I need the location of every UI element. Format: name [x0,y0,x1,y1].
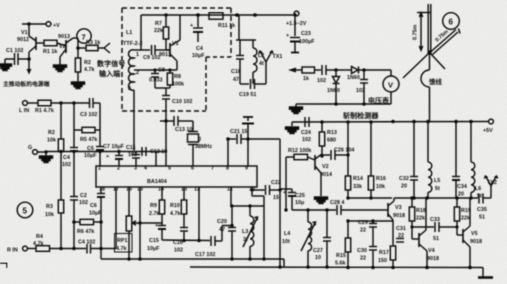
feeder line with loop [421,53,430,122]
node at riser to L2 tank [235,13,239,17]
label circle 7 [77,29,91,43]
label circle 5 [17,202,33,218]
wire L-in column to pin1 [99,103,101,146]
wire pin11 riser and row [230,187,264,208]
resistor R1 1k [36,40,57,55]
wire V3 base bias row [346,196,392,199]
detector probe arrow [288,68,302,73]
ground bus 2 [190,265,483,269]
capacitor C23 100uF [286,13,315,52]
capacitor C10 102 [162,96,192,122]
wire detector bottom [296,102,391,106]
ground under C1 [0,59,12,71]
wire tank bottom [240,83,249,85]
resistor R4 4.7k [33,234,86,251]
capacitor C4 10uF [190,13,205,59]
capacitor C19 51 [239,79,266,98]
capacitor C21 15 [226,129,250,144]
label circle 6 [443,13,460,30]
antenna radial left [403,54,429,79]
wire C8/R8 join [155,88,170,95]
node C1/V1 base junction [27,57,31,61]
wire collector row [394,196,471,200]
resistor R9 2.7k [149,187,165,225]
transistor V5 9018 [457,198,482,268]
antenna vertical element [428,4,431,51]
capacitor C3 102 [80,98,100,118]
voltmeter V [364,70,399,104]
potentiometer RP1 4.7k [115,187,141,259]
capacitor C9 102 [143,45,170,61]
transistor V3 9018 [385,198,405,220]
node feed junction [253,13,257,17]
resistor R7 22k [154,13,170,50]
resistor R12 100k [284,148,315,212]
capacitor C26 104 [322,148,354,161]
capacitor C30 22 [357,247,377,268]
capacitor C29 22 [358,220,377,246]
resistor R11 1k [209,13,235,29]
capacitor C25 10u coupling [280,189,305,210]
ground bus 1 [101,257,284,267]
capacitor C4 102 (audio) [62,148,78,169]
crystal 38MHz [188,121,213,166]
transistor V2 9014 [315,154,332,196]
resistor R1 4.7k (audio) [35,100,89,114]
resistor R3 1k [78,40,100,51]
node pin5 riser [164,119,168,123]
wire pin4 riser [155,152,157,167]
wire arrow to power label [27,59,32,75]
capacitor C20 47 [217,206,236,259]
resistor R17 150 [378,221,396,268]
capacitor C16 102 [173,228,188,254]
wire pin1 riser [99,152,101,167]
capacitor C7 10uF on pin2 [103,144,125,166]
wire pin8 riser [227,139,229,166]
resistor R2 10k (audio) [47,103,64,152]
capacitor C12 10 in series [142,147,167,156]
capacitor C28 4 [330,200,385,215]
wire pin17 riser [99,187,116,250]
node B [72,101,76,105]
capacitor 102 detector filter [356,68,368,104]
wire top bus in box [141,14,294,16]
capacitor C32 20 [399,122,418,199]
transistor V4 9018 [412,198,439,268]
capacitor C5 10uF [84,146,104,159]
resistor R2 4.7k [75,48,94,82]
IC U1 BA1404 [96,166,257,193]
capacitor C4 102 (R ch) [78,240,116,254]
wire pin10 route [252,187,264,259]
diode D2 1N60 series [336,67,364,82]
node antenna apex [427,50,431,54]
wire C21 to C22 column [248,138,280,140]
inductor L1 TTF-2-2 [123,30,142,92]
resistor R15 5.6k [335,221,351,267]
transistor V1 9013 (osc) [159,15,180,70]
capacitor C33 51 [410,217,458,242]
wire G bus [46,150,166,153]
transistor V2 9013 [57,34,78,65]
wire L1 tap2 [134,69,147,71]
capacitor C22 15 [250,180,280,201]
resistor R18 22k [409,198,426,239]
label digital signal input (Chinese) [97,59,125,78]
resistor 1k detector [302,67,321,82]
capacitor C34 20 [452,122,467,199]
antenna radial right short [431,54,446,70]
inductor L6 5t [471,122,482,200]
capacitor C31 22 [396,226,406,242]
wire C21/C22 column down [278,139,281,267]
wire emitter row [147,68,177,71]
ground symbol right end [478,268,493,278]
resistor R10 4.7k [170,187,187,227]
antenna arm upper right double [431,29,461,55]
terminal R IN [7,246,36,253]
wire pin15 riser [138,187,142,259]
inductor L4 10t variable [282,210,316,267]
wire V3 emitter row [346,219,393,222]
wire L1 bottom down [133,90,135,151]
capacitor C2 102 [70,152,88,250]
capacitor 102 detector in [317,65,336,84]
terminal L IN [19,101,38,114]
capacitor C27 10 [313,210,331,267]
wire wiper row to R9 [140,222,162,224]
ground detector [290,104,303,114]
wire pin12 riser [198,187,200,241]
capacitor C35 51 to TX2 [469,194,491,221]
capacitor C18 47 [231,40,244,84]
node A [59,101,63,105]
inductor L3 variable [242,206,258,259]
resistor R16 10k [368,122,386,198]
ground under R2 [72,82,85,89]
digital input terminal fork [98,43,110,53]
resistor R19 22k [454,198,471,235]
node R-in junctions [59,247,76,251]
resistor R6 47k [72,219,103,235]
power rail +5V [292,120,489,124]
wire C1 row [5,58,14,60]
antenna TX2 [484,176,497,198]
capacitor C11 102 on pin3 [126,145,140,166]
dimension 0.75m vertical [413,13,432,51]
antenna TX1 [259,51,283,84]
inductor L5 5t [428,122,440,199]
resistor R3 10k [45,152,64,250]
wire pin9 riser [247,139,249,166]
transistor V1 9012 [17,24,36,59]
wire pin5 riser [165,121,167,166]
terminal +1.5~2V [286,11,307,27]
capacitor C6 10uF [89,187,105,259]
node V2 collector / R2 / R3 [76,46,80,50]
terminal +5V [483,119,493,134]
capacitor C24 102 with ground [286,117,312,143]
capacitor C15 10uF [147,223,166,252]
resistor R13 680 [319,122,337,157]
inductor L2 4t [253,40,264,84]
capacitor C8 0.033 [149,68,165,89]
capacitor C17 102 [195,226,232,259]
resistor R14 33k [345,122,363,198]
resistor R5 47k [74,103,100,147]
resistor R8 100k [167,70,184,88]
wire RF row to V3 [292,208,336,212]
diode D1 1N60 shunt [327,68,340,104]
terminal +V [46,22,60,29]
wire stub artifact bottom-left [0,263,7,268]
ground above C21 [242,117,254,139]
dashed oscillator box [122,8,231,111]
capacitor C13 10 [160,116,193,133]
wire riser tank [236,15,256,40]
wire L1 tap1 to C9 [134,49,150,51]
ground under V2 emitter [54,65,67,72]
wire riser to L1 top [140,15,142,50]
wire +V top rail [22,23,46,25]
ground under V2 [315,197,328,204]
wire C15/C16 bottom row [162,239,210,243]
terminal G with ground [28,145,53,163]
capacitor C1 102 [6,48,29,65]
node V1 emitter junction [27,22,31,26]
